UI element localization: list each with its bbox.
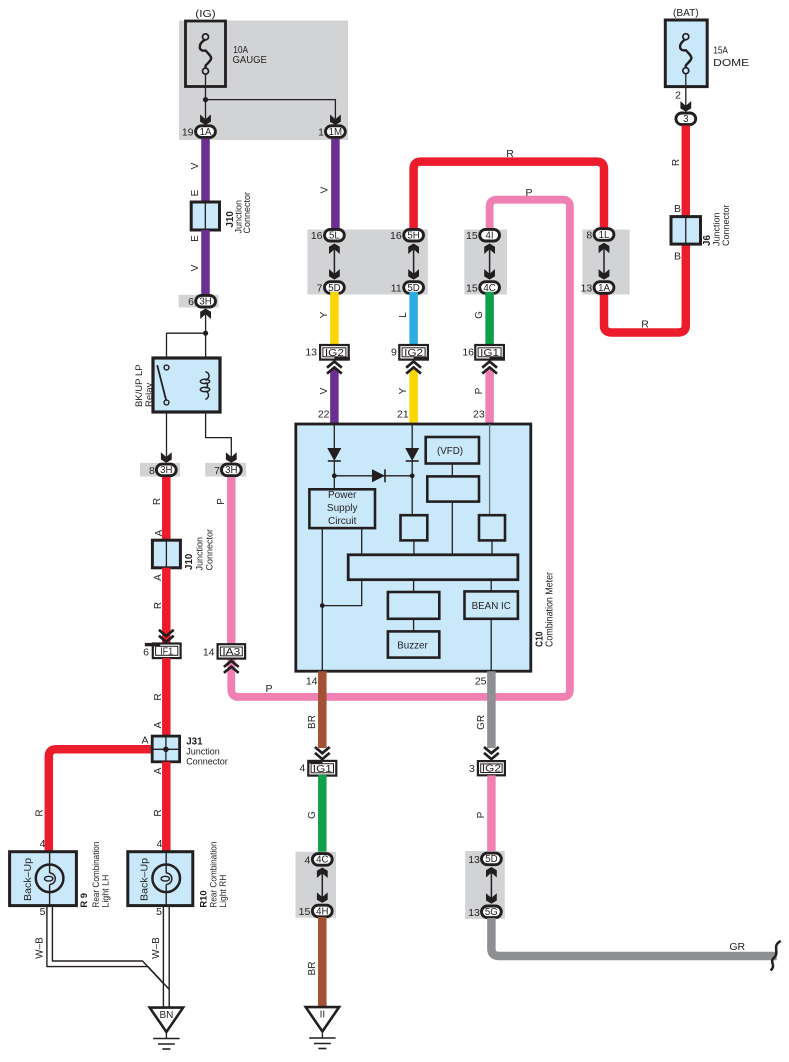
svg-text:BR: BR	[307, 962, 318, 976]
connector 3	[676, 113, 696, 125]
svg-text:6: 6	[143, 647, 149, 659]
chevrons below IG2-13	[327, 362, 342, 368]
svg-text:15A: 15A	[713, 46, 728, 57]
svg-text:Relay: Relay	[144, 382, 155, 407]
square block left	[401, 515, 428, 540]
lamp R10 Back-Up box	[128, 852, 193, 906]
svg-text:V: V	[190, 162, 201, 169]
sub box	[388, 592, 439, 619]
node 22 bus	[332, 473, 337, 478]
svg-text:V: V	[190, 264, 201, 271]
svg-text:W–B: W–B	[34, 937, 45, 959]
svg-text:R 9: R 9	[78, 893, 89, 908]
fuse 15A DOME	[665, 20, 707, 87]
connector band 5L/5H to 5D	[307, 230, 427, 295]
relay switch	[157, 365, 166, 400]
chevrons into IF1	[159, 630, 174, 636]
wire P IG2 to 5D	[487, 775, 496, 860]
wire P 3H7 to IA3	[227, 477, 236, 646]
svg-text:4H: 4H	[316, 906, 328, 917]
svg-text:16: 16	[462, 347, 474, 359]
wire R IF1 to J31	[162, 658, 171, 737]
wire square right to bus	[491, 540, 493, 554]
svg-text:3H: 3H	[160, 465, 172, 476]
driver box	[427, 476, 479, 501]
svg-text:Connector: Connector	[205, 529, 215, 571]
svg-text:Light RH: Light RH	[218, 874, 229, 907]
wire pin21 to diode	[411, 424, 413, 449]
wire VFD to driver box	[451, 464, 453, 477]
arrow into 1A	[200, 115, 211, 126]
svg-text:14: 14	[306, 676, 318, 688]
svg-text:GR: GR	[476, 715, 487, 730]
wire R J31 to right lamp	[162, 762, 171, 852]
chevrons below IG1-16	[482, 362, 497, 368]
chevrons into IG1-4	[315, 747, 330, 753]
svg-text:3: 3	[469, 763, 475, 775]
svg-text:R: R	[671, 159, 682, 166]
double arrow 1L-1A	[603, 246, 605, 277]
svg-text:Junction: Junction	[186, 747, 220, 757]
svg-text:1M: 1M	[329, 127, 342, 138]
svg-text:IG2: IG2	[482, 764, 501, 775]
arrow into 3	[680, 101, 691, 112]
svg-text:P: P	[216, 498, 227, 505]
wire PSC right leg	[322, 528, 361, 606]
node PSC leg	[320, 603, 325, 608]
svg-text:5: 5	[156, 906, 162, 918]
svg-text:Connector: Connector	[242, 192, 252, 234]
svg-text:5: 5	[40, 906, 46, 918]
svg-text:1A: 1A	[598, 283, 610, 294]
wire V 1M to 5L	[331, 139, 340, 235]
svg-text:P: P	[525, 187, 532, 199]
svg-text:E: E	[190, 235, 201, 242]
svg-text:R: R	[153, 809, 164, 816]
svg-text:P: P	[265, 683, 272, 695]
wire R J10 to IF1	[162, 568, 171, 645]
wire node to switch	[167, 333, 206, 359]
svg-text:IA3: IA3	[222, 647, 240, 658]
svg-text:13: 13	[468, 907, 480, 919]
connector 3H pin8 band	[140, 463, 180, 477]
wire pin22 to diode	[333, 424, 335, 449]
svg-text:15: 15	[299, 906, 311, 918]
node 21 bus	[410, 473, 415, 478]
svg-text:4I: 4I	[486, 231, 494, 242]
connector band 5D/5G	[465, 851, 505, 919]
svg-text:1: 1	[318, 127, 324, 139]
svg-text:22: 22	[318, 409, 330, 421]
wire R J31 to left lamp	[49, 749, 167, 852]
wire node to 1A	[205, 100, 207, 119]
relay BK/UP LP box	[153, 358, 220, 412]
svg-text:(VFD): (VFD)	[437, 446, 463, 457]
svg-text:7: 7	[214, 465, 220, 477]
svg-text:Circuit: Circuit	[328, 516, 357, 527]
svg-text:Buzzer: Buzzer	[397, 640, 428, 651]
chevrons into IG2-3	[484, 747, 499, 753]
svg-text:13: 13	[305, 347, 317, 359]
wire R battery to 1A	[604, 126, 686, 333]
wire diode to square	[411, 461, 413, 516]
wire 3H to relay node	[205, 314, 207, 334]
svg-text:5H: 5H	[407, 231, 419, 242]
wire bus to sub box	[413, 580, 415, 592]
wire square left to bus	[413, 540, 415, 554]
wire BR 4H to ground	[318, 917, 327, 1007]
svg-text:Light LH: Light LH	[101, 874, 112, 907]
connector 3H pin 6 band	[179, 295, 219, 308]
svg-text:5D: 5D	[485, 854, 497, 865]
wire fuse to node	[205, 74, 207, 100]
wire R 3H8 to J10	[162, 477, 171, 541]
combination meter C10 box	[296, 424, 531, 671]
wire V IG2 to meter pin22	[330, 369, 339, 425]
lamp R9 Back-Up box	[10, 852, 77, 906]
svg-text:R: R	[153, 693, 164, 700]
wire V J10 to 3H	[201, 230, 210, 296]
fuse 10A GAUGE	[186, 21, 226, 87]
svg-text:16: 16	[311, 230, 323, 242]
wire diode to PSC	[333, 461, 335, 490]
wire PSC left leg to pin14	[321, 528, 323, 671]
wire switch to 3H pin8	[166, 412, 168, 458]
svg-text:R: R	[641, 319, 649, 331]
diode D3	[372, 469, 385, 482]
svg-text:11: 11	[391, 283, 402, 295]
svg-text:2: 2	[675, 90, 681, 102]
svg-text:Y: Y	[398, 387, 409, 394]
diode D2	[405, 448, 419, 461]
arrow into 3H pin8	[161, 452, 172, 463]
relay coil	[205, 372, 209, 400]
svg-text:Y: Y	[319, 311, 330, 318]
connector band 4C/4H	[296, 852, 337, 918]
svg-text:7: 7	[317, 283, 323, 295]
svg-text:R10: R10	[198, 890, 209, 907]
wire P IG1 to meter pin23	[485, 369, 494, 425]
svg-text:6: 6	[188, 296, 194, 308]
wire L 5D to IG2	[409, 292, 418, 347]
svg-text:3H: 3H	[199, 297, 211, 308]
svg-text:Back–Up: Back–Up	[23, 858, 34, 901]
double arrow 5L-5D	[333, 247, 335, 277]
svg-text:IF1: IF1	[160, 646, 173, 657]
wire pin23 line	[489, 424, 491, 515]
wire fuse to 3	[685, 74, 687, 107]
svg-text:II: II	[320, 1010, 326, 1021]
svg-text:15: 15	[466, 230, 478, 242]
svg-text:B: B	[674, 251, 681, 263]
connector band 4I/4C	[464, 230, 507, 295]
wire BEAN to pin25	[490, 619, 492, 671]
power supply circuit box	[309, 489, 375, 528]
junction block (IG side) background	[179, 21, 348, 141]
svg-text:BR: BR	[307, 715, 318, 729]
svg-text:Power: Power	[328, 490, 357, 501]
svg-text:Combination Meter: Combination Meter	[544, 572, 556, 647]
BEAN IC box	[465, 591, 518, 618]
svg-text:19: 19	[182, 127, 194, 139]
square block right	[479, 515, 505, 540]
connector 3H pin7 band	[205, 463, 246, 477]
wire G 4C to IG1	[485, 292, 494, 347]
svg-text:B: B	[674, 203, 681, 215]
wire bus to BEAN	[490, 580, 492, 592]
wire R 1L to 5H	[414, 162, 604, 232]
svg-text:A: A	[154, 529, 165, 536]
svg-text:8: 8	[149, 465, 155, 477]
chevrons below IG2-9	[406, 362, 421, 368]
diode D1	[327, 448, 341, 461]
wire GR continuation mark	[771, 941, 781, 971]
svg-text:IG1: IG1	[313, 764, 332, 775]
svg-text:V: V	[320, 186, 331, 193]
svg-text:(BAT): (BAT)	[673, 7, 699, 19]
svg-text:P: P	[476, 811, 487, 818]
wire GR 5G to right edge	[491, 918, 776, 956]
double arrow 4C-4H	[321, 871, 323, 900]
svg-text:Connector: Connector	[721, 204, 731, 246]
bus bar box	[348, 555, 518, 580]
junction connector J6	[671, 217, 701, 245]
svg-text:15: 15	[466, 283, 478, 295]
arrow up into 3H pin6	[200, 309, 211, 320]
chevrons below IA3	[224, 661, 239, 667]
svg-text:3: 3	[683, 114, 688, 125]
double arrow 4I-4C	[489, 247, 491, 277]
wire sub to buzzer	[413, 619, 415, 632]
wire Y 5D to IG2	[330, 292, 339, 347]
wire G IG1 to 4C	[318, 775, 327, 860]
svg-text:E: E	[190, 189, 201, 196]
wire node to 1M	[206, 100, 336, 119]
wire W-B right lamp	[162, 906, 164, 1008]
svg-text:A: A	[153, 721, 164, 728]
svg-text:W–B: W–B	[151, 937, 162, 959]
junction connector J10 (upper)	[191, 202, 219, 230]
svg-text:G: G	[474, 311, 485, 319]
svg-text:(IG): (IG)	[195, 8, 215, 20]
svg-text:L: L	[398, 312, 409, 318]
node under fuse	[203, 97, 208, 102]
svg-text:4C: 4C	[316, 855, 328, 866]
junction connector J31	[152, 736, 179, 762]
svg-text:1A: 1A	[200, 127, 212, 138]
svg-text:23: 23	[473, 409, 485, 421]
svg-text:R: R	[152, 498, 163, 505]
ground BN	[150, 1008, 183, 1032]
svg-text:5L: 5L	[329, 231, 340, 242]
svg-text:R: R	[506, 148, 514, 160]
svg-text:P: P	[474, 387, 485, 394]
wire GR pin25 down	[487, 671, 496, 748]
svg-text:A: A	[141, 735, 148, 747]
svg-text:8: 8	[586, 229, 592, 241]
double arrow 5H-5D	[413, 247, 415, 277]
svg-text:5G: 5G	[485, 907, 498, 918]
svg-text:BN: BN	[159, 1010, 173, 1021]
svg-text:3H: 3H	[225, 465, 237, 476]
node above relay	[203, 331, 208, 336]
svg-text:13: 13	[468, 854, 480, 866]
wire P IA3 to bottom run	[231, 658, 242, 697]
svg-text:13: 13	[581, 283, 593, 295]
svg-text:4: 4	[299, 763, 305, 775]
junction connector J10 (lower)	[152, 540, 180, 568]
svg-text:4: 4	[40, 838, 46, 850]
svg-text:Junction: Junction	[194, 537, 204, 571]
wire node to coil	[205, 333, 207, 372]
svg-text:4: 4	[157, 838, 163, 850]
svg-text:G: G	[307, 811, 318, 819]
wire BR pin14 down	[318, 671, 327, 748]
svg-text:1L: 1L	[599, 230, 610, 241]
wire coil to 3H pin7	[206, 412, 232, 458]
wire V 1A to J10	[201, 139, 210, 203]
svg-text:14: 14	[203, 647, 215, 659]
svg-text:Back–Up: Back–Up	[140, 858, 151, 901]
wire cross link	[334, 475, 412, 477]
wire P 4I loop	[235, 200, 570, 697]
svg-text:DOME: DOME	[713, 58, 749, 69]
connector band 1L/1A	[583, 230, 630, 295]
buzzer box	[388, 631, 439, 657]
svg-text:25: 25	[475, 676, 487, 688]
svg-text:Connector: Connector	[186, 757, 228, 767]
svg-text:Supply: Supply	[327, 503, 358, 514]
double arrow 5D-5G	[490, 870, 492, 901]
wire Y IG2 to meter pin21	[409, 369, 418, 425]
arrow into 3H pin7	[226, 452, 237, 463]
svg-text:V: V	[319, 387, 330, 394]
svg-text:GAUGE: GAUGE	[233, 55, 267, 66]
arrow into 1M	[330, 115, 341, 126]
wire driver to bus	[451, 502, 453, 555]
svg-text:4: 4	[304, 854, 310, 866]
svg-text:16: 16	[390, 230, 402, 242]
svg-text:21: 21	[397, 409, 409, 421]
svg-text:R: R	[34, 809, 45, 816]
VFD box	[426, 437, 479, 464]
svg-text:GR: GR	[729, 941, 745, 953]
ground II	[306, 1007, 339, 1031]
wire W-B left lamp	[47, 906, 169, 990]
svg-text:9: 9	[391, 347, 397, 359]
svg-text:BEAN IC: BEAN IC	[472, 601, 511, 612]
svg-text:Junction: Junction	[712, 212, 722, 246]
